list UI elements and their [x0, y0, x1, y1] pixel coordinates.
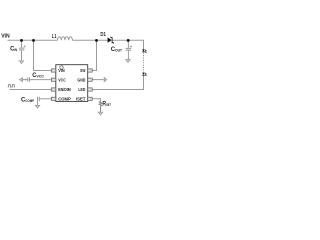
svg-text:COMP: COMP	[25, 98, 34, 103]
svg-text:VIN: VIN	[1, 34, 9, 40]
svg-text:OUT: OUT	[115, 48, 123, 53]
svg-text:VIN: VIN	[58, 68, 65, 74]
svg-text:L1: L1	[52, 34, 57, 40]
svg-text:GND: GND	[77, 77, 85, 83]
svg-text:VCC: VCC	[37, 74, 45, 79]
svg-text:SW: SW	[80, 68, 86, 74]
svg-text:IN: IN	[14, 47, 17, 52]
svg-text:LED: LED	[78, 87, 85, 93]
svg-text:D1: D1	[100, 32, 106, 38]
svg-text:COMP: COMP	[58, 97, 71, 103]
svg-text:ISET: ISET	[76, 97, 85, 103]
svg-text:SET: SET	[106, 102, 111, 107]
svg-text:EN/DIM: EN/DIM	[58, 87, 71, 93]
svg-text:VCC: VCC	[58, 77, 66, 83]
